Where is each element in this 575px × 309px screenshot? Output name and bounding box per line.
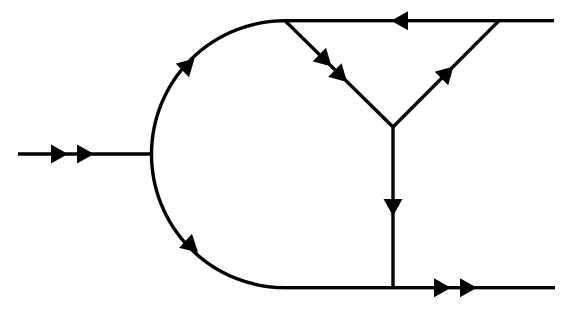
arrowhead: bottom line second (points right) <box>460 278 477 297</box>
arrowhead: incoming line first (points right) <box>51 145 68 164</box>
arrowhead: top line (points left) <box>391 11 408 30</box>
wire: incoming external line (left, y=154) <box>18 152 153 155</box>
wire: left diagonal from top junction to vertex <box>285 21 393 127</box>
arrowhead: left diagonal first (points down-right) <box>313 48 338 73</box>
arrowhead: lower arc (points down-right) <box>179 234 204 259</box>
arrowhead: incoming line second (points right) <box>77 145 94 164</box>
wire: right diagonal from top line to vertex <box>393 21 499 127</box>
wire: semicircular loop arc (center 285,154 r 133.5) <box>152 21 286 288</box>
arrowhead: left diagonal second (points down-right) <box>328 63 353 88</box>
wire: vertical line from vertex to bottom line <box>391 127 394 288</box>
arrowhead: vertical line (points down) <box>384 199 403 216</box>
wire: bottom horizontal line (y=288) <box>285 286 555 289</box>
arrowhead: bottom line first (points right) <box>434 278 451 297</box>
arrowhead: upper arc (points up-right) <box>176 52 201 77</box>
wire: top horizontal line (y=21) <box>285 19 554 22</box>
arrowhead: right diagonal (points up-right) <box>435 60 460 85</box>
